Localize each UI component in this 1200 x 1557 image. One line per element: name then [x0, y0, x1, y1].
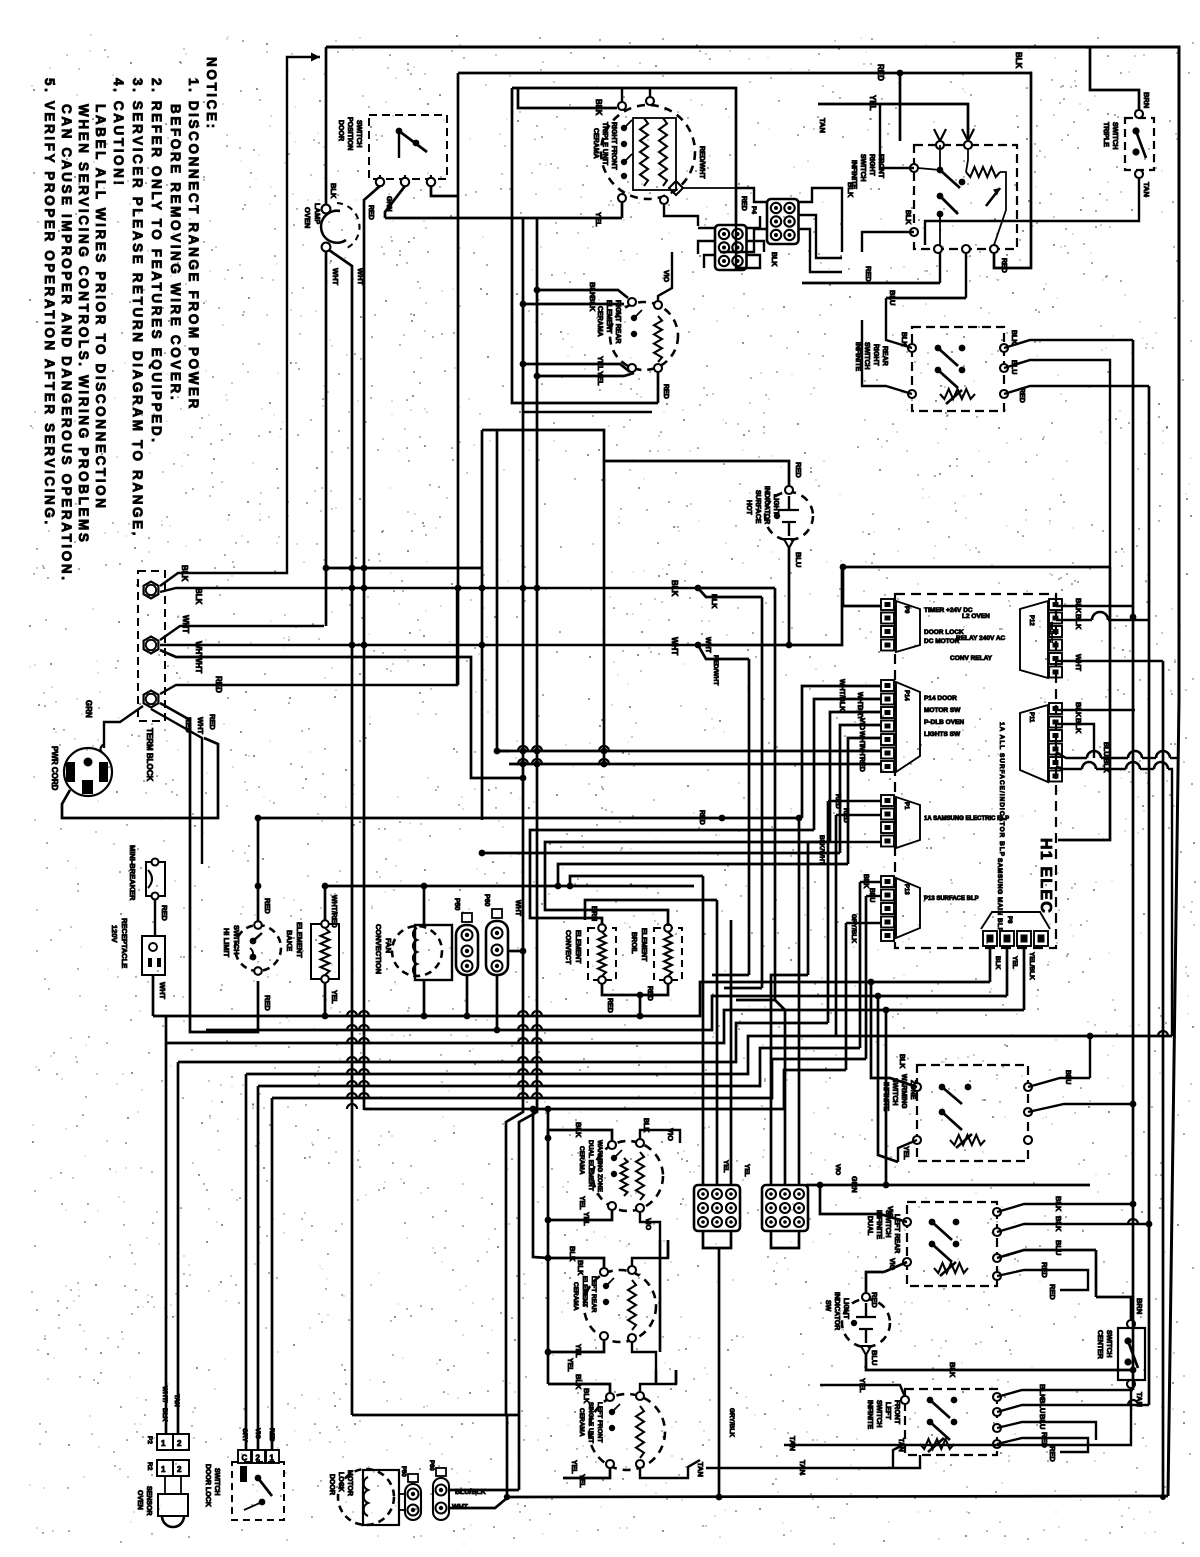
svg-text:CERAMA: CERAMA [578, 1408, 585, 1437]
svg-text:1: 1 [161, 1465, 166, 1474]
terminal TB1-RED [144, 691, 159, 708]
wire BLK left front top [548, 1384, 610, 1393]
svg-text:WHT: WHT [158, 982, 167, 999]
svg-text:P60: P60 [483, 894, 490, 907]
cascade row Y900 [585, 900, 717, 920]
enclosure rect right rear element [523, 296, 652, 412]
wire P14 pin6 WHT long bus [497, 750, 881, 753]
svg-text:4. CAUTION!: 4. CAUTION! [111, 78, 126, 188]
wire RED breaker to receptacle [154, 899, 156, 936]
svg-text:BLK: BLK [994, 956, 1001, 970]
dual infinite switch left rear dashed box [907, 1202, 997, 1286]
svg-text:WHT: WHT [670, 637, 679, 655]
svg-text:P13 SURFACE BLP: P13 SURFACE BLP [924, 896, 979, 902]
svg-text:BLK/WHT: BLK/WHT [818, 835, 825, 865]
wire BLK right rear top2 [523, 303, 624, 306]
trunk vertical X482 [481, 430, 484, 820]
wire sw light top [866, 1272, 884, 1293]
wire sw light bottom [866, 1355, 1133, 1370]
svg-text:SW: SW [824, 1300, 831, 1312]
svg-text:P1: P1 [903, 802, 909, 810]
enclosure rect right front element [512, 88, 658, 403]
vertical X523 lower continuation jog [506, 952, 523, 1415]
svg-text:BLK: BLK [161, 1408, 168, 1422]
svg-text:2. REFER ONLY TO FEATURES EQUI: 2. REFER ONLY TO FEATURES EQUIPPED. [149, 78, 164, 445]
wire P8 YEL down to warming switch [878, 996, 898, 1162]
connector C6 right front [715, 225, 747, 270]
infinite switch right front dashed box [914, 145, 1017, 249]
svg-text:SWITCH: SWITCH [355, 120, 362, 148]
svg-text:TAN: TAN [798, 1460, 807, 1475]
wires door lock switch up [245, 1074, 248, 1450]
triple switch dashed box [1125, 118, 1154, 170]
power cord PWR CORD [64, 748, 112, 796]
header P1 bottom left A [881, 795, 894, 806]
svg-text:BLK: BLK [1054, 1196, 1063, 1212]
element CERAMA ELEMENT RIGHT REAR dashed circle [610, 302, 678, 370]
svg-text:BRN: BRN [1135, 1298, 1144, 1314]
wire BRN to triple switch [1090, 47, 1139, 110]
wire from element bottom right [664, 204, 698, 226]
svg-text:CERAMA: CERAMA [578, 1146, 585, 1175]
wire RED door switch down to trunk [364, 186, 380, 568]
wire YEL from right front element [621, 202, 624, 218]
wires dual switch right BLK BLK [997, 1204, 1133, 1212]
wire door switch right leg [431, 186, 458, 196]
wire RED right rear down to enclosure bottom [657, 372, 660, 403]
svg-text:BLK: BLK [1010, 330, 1017, 344]
vertical chain left of bottom elements [547, 1109, 550, 1384]
inf sw RF coil [966, 167, 1000, 177]
wire bake top [324, 886, 327, 920]
svg-text:VIO: VIO [666, 1128, 675, 1141]
wire bottom WHT bus to border [507, 1496, 1168, 1497]
svg-text:DUAL: DUAL [866, 1216, 873, 1236]
svg-text:P13: P13 [903, 884, 909, 895]
svg-text:LAMP: LAMP [313, 203, 322, 224]
svg-text:2: 2 [177, 1439, 182, 1448]
wire BLK P11 pin2 [1056, 724, 1094, 758]
wire Y430 link [482, 430, 604, 461]
svg-text:CERAMA: CERAMA [572, 1282, 579, 1311]
svg-text:RED: RED [858, 757, 865, 772]
svg-text:RED: RED [794, 462, 803, 478]
svg-text:BLU: BLU [870, 1350, 879, 1365]
svg-text:1: 1 [270, 1454, 275, 1463]
wire WHT lamp down-left [325, 251, 328, 626]
svg-text:BLK: BLK [574, 1122, 583, 1138]
trunk vertical X1149 [1148, 386, 1151, 1220]
svg-text:BLK: BLK [1074, 614, 1083, 630]
vertical X537 lower continuation jog [519, 886, 537, 1415]
svg-text:SWITCH: SWITCH [1111, 122, 1118, 150]
svg-text:OVEN: OVEN [303, 207, 312, 228]
svg-text:5. VERIFY PROPER OPERATION AFT: 5. VERIFY PROPER OPERATION AFTER SERVICI… [42, 78, 57, 527]
connector C8 upper right [767, 199, 799, 244]
svg-text:VIO: VIO [888, 1258, 895, 1271]
wire TAN left front switch bottom [706, 1455, 920, 1468]
wire BLK Y588 lower branch [698, 588, 762, 597]
hop bumps on bus rows 751 764 [518, 746, 528, 751]
cascade row Y842 to broil element [545, 842, 830, 926]
svg-text:RED: RED [740, 196, 747, 211]
svg-text:GRY/BLK: GRY/BLK [728, 1408, 735, 1437]
bus Y751 left part [497, 750, 510, 753]
svg-text:TAN: TAN [818, 118, 827, 133]
wires C8 left side [736, 188, 768, 202]
svg-text:P50: P50 [400, 1466, 406, 1477]
trunk vertical X364 [363, 568, 366, 1110]
svg-text:2: 2 [256, 1454, 261, 1463]
svg-text:H1 ELEC: H1 ELEC [1037, 838, 1054, 914]
svg-text:CERAMA: CERAMA [592, 128, 599, 159]
bus Y568 short [326, 567, 482, 570]
wire surface light top loop [604, 461, 789, 767]
trunk vertical X497 [496, 430, 499, 751]
svg-text:TAN: TAN [173, 1394, 180, 1407]
wire left front top right [640, 1370, 676, 1392]
svg-text:WHT: WHT [704, 637, 711, 654]
wire motor to pills [399, 1493, 405, 1495]
svg-text:RELAY 240V AC: RELAY 240V AC [956, 635, 1006, 642]
svg-text:LEFT FRONT: LEFT FRONT [596, 1402, 603, 1442]
svg-text:DUAL ELEMENT: DUAL ELEMENT [587, 1140, 594, 1191]
svg-text:P9: P9 [903, 606, 909, 614]
svg-text:LIGHTS SW: LIGHTS SW [924, 731, 961, 738]
wires warming switch right [1028, 1078, 1090, 1087]
hop bumps on ladder rows at left trunks [347, 1011, 357, 1016]
wire P14 pin1 WHT/BLK [802, 686, 881, 818]
svg-text:WHT: WHT [514, 900, 521, 917]
svg-text:FAN: FAN [384, 938, 393, 953]
svg-text:P8: P8 [1006, 916, 1012, 924]
wires left front switch right [997, 1390, 1133, 1397]
wire right riser X1110 down [1058, 567, 1110, 840]
trunk vertical X537 [536, 218, 539, 886]
wire BLU/BLK P11 hop line Y758 [1056, 752, 1087, 758]
cascade row RED Y818 [258, 817, 802, 820]
wire left front switch left [893, 1444, 905, 1468]
svg-text:BLK: BLK [898, 1054, 905, 1068]
svg-text:GRY: GRY [241, 1428, 248, 1443]
svg-text:BLK: BLK [1054, 1216, 1063, 1232]
svg-text:YEL: YEL [902, 1146, 909, 1160]
svg-text:WHT/RED: WHT/RED [330, 895, 337, 928]
svg-text:SENSOR: SENSOR [145, 1486, 152, 1516]
svg-text:CONVECTION: CONVECTION [374, 924, 383, 974]
connector R2 [157, 1460, 173, 1476]
wire header P9 left [843, 567, 881, 606]
svg-text:P2: P2 [146, 1436, 153, 1444]
svg-text:TRIPLE: TRIPLE [1102, 122, 1109, 147]
wire WHT header P12 pin5 [1056, 660, 1163, 662]
svg-text:CONVECT: CONVECT [564, 930, 571, 965]
svg-text:RED: RED [208, 714, 217, 730]
svg-text:2: 2 [177, 1465, 182, 1474]
svg-text:BRN: BRN [590, 906, 597, 921]
svg-text:VIO: VIO [254, 1428, 261, 1439]
terminal block TB1 dashed outline [138, 571, 165, 721]
header P12 top right [1049, 599, 1062, 610]
wire BLK warming top [548, 1130, 612, 1141]
wire P14 pin2 WHT [814, 699, 881, 830]
wire WHT bus Y657 [160, 650, 523, 778]
H1 ELEC board dashed outline [895, 594, 1056, 948]
element CERAMA TRIPLE UNIT RIGHT FRONT dashed circle [601, 105, 695, 199]
svg-text:WHITE: WHITE [1046, 622, 1053, 644]
wire BRN center switch [1096, 1297, 1131, 1320]
svg-text:CONV RELAY: CONV RELAY [950, 655, 993, 662]
inf sw RF contacts [910, 164, 918, 172]
svg-text:INDICATOR: INDICATOR [833, 1292, 840, 1330]
wires C8 right side [798, 188, 842, 252]
svg-text:P14: P14 [903, 690, 909, 701]
wire warm switch left [871, 982, 917, 1087]
svg-text:BLK: BLK [948, 1362, 957, 1378]
cascade row Y830 to convect element [530, 830, 814, 926]
svg-text:P14 DOOR: P14 DOOR [924, 695, 957, 702]
svg-text:RED: RED [606, 998, 613, 1013]
svg-text:RIGHT: RIGHT [868, 154, 875, 177]
svg-text:BLK: BLK [582, 1388, 591, 1404]
element internals right front [618, 102, 626, 110]
wire P60 drop [496, 975, 499, 1030]
svg-text:RED: RED [834, 794, 841, 809]
svg-text:BLK: BLK [1074, 702, 1083, 718]
svg-text:SINGLE UNIT: SINGLE UNIT [587, 1402, 594, 1443]
svg-text:P11: P11 [1028, 712, 1034, 723]
svg-text:BLK: BLK [670, 580, 679, 597]
wire warming bottom right [640, 1212, 660, 1240]
svg-text:MINI-BREAKER: MINI-BREAKER [128, 845, 137, 901]
wire left rear top right [632, 1240, 668, 1266]
wire P14 pin7 RED long bus [509, 763, 881, 766]
svg-text:RED: RED [864, 266, 873, 282]
door lock motor [363, 1470, 399, 1525]
svg-text:BLK: BLK [1014, 52, 1023, 69]
svg-text:GRN: GRN [850, 1176, 859, 1193]
cascade row Y853 [482, 852, 840, 855]
wire TAN left front bottom right [640, 1460, 700, 1478]
wire RED bus Y685 [160, 588, 457, 694]
svg-text:BLK: BLK [862, 874, 869, 888]
svg-text:TAN: TAN [696, 1462, 705, 1477]
wire WHT right of P60 [508, 950, 523, 953]
wires P1 left [828, 800, 881, 802]
svg-text:BLK: BLK [1074, 718, 1083, 734]
trunk vertical X1133 [1132, 340, 1135, 1093]
wire RED/WHT branch of WHT bus [698, 645, 749, 659]
svg-text:BLK: BLK [900, 332, 907, 346]
svg-text:P4: P4 [750, 206, 757, 214]
svg-text:POSITION: POSITION [346, 117, 353, 150]
svg-text:OVEN: OVEN [136, 1490, 143, 1510]
svg-text:RECEPTACLE: RECEPTACLE [120, 918, 129, 968]
svg-text:YEL: YEL [858, 1378, 867, 1393]
svg-text:L2 OVEN: L2 OVEN [962, 613, 990, 620]
oven lamp [321, 211, 346, 243]
infinite switch left front dashed box [905, 1389, 997, 1455]
wire BLK P11 pin1 [1056, 709, 1135, 711]
infinite switch warming zone dashed box [917, 1065, 1028, 1161]
wire Y567 snake right [842, 566, 1110, 569]
cascade row Y864 [558, 864, 848, 886]
mini breaker box [146, 862, 165, 896]
svg-text:R2: R2 [146, 1462, 153, 1471]
svg-text:BLK: BLK [180, 565, 189, 582]
sw indicator light dashed circle [842, 1299, 890, 1347]
svg-text:BLK: BLK [594, 99, 603, 116]
svg-text:BLU: BLU [1054, 1240, 1063, 1255]
svg-text:RED: RED [160, 905, 169, 921]
wires P2 to sensor [164, 1476, 166, 1494]
svg-text:VIO: VIO [886, 1206, 893, 1219]
wire bake bottom [324, 983, 327, 1016]
svg-text:YEL: YEL [722, 1160, 729, 1173]
wire P14 pin5 WHT [848, 738, 881, 864]
wire BLK from terminal block up to border [160, 57, 320, 586]
svg-text:YEL: YEL [582, 1212, 589, 1226]
svg-text:C: C [242, 1454, 248, 1463]
wire top line Y73 RED [458, 73, 1031, 268]
wire element top left terminal [621, 88, 623, 102]
svg-text:BLK: BLK [194, 588, 203, 605]
wires P8 down [989, 946, 992, 982]
connector pill A [405, 1484, 421, 1520]
wire WHT below receptacle [152, 975, 155, 1016]
svg-text:YEL: YEL [578, 1474, 585, 1488]
trunk vertical X1163 [1162, 661, 1165, 1497]
svg-text:WHT/BLK: WHT/BLK [838, 679, 845, 711]
wire Y1036 row to BLU/BLK return [836, 1035, 1172, 1038]
svg-text:WHEN SERVICING CONTROLS. WIRIN: WHEN SERVICING CONTROLS. WIRING PROBLEMS [76, 104, 91, 545]
svg-text:RED: RED [367, 205, 374, 220]
convect element [588, 928, 616, 980]
svg-text:SAMSUNG MAIN BLP: SAMSUNG MAIN BLP [996, 858, 1003, 933]
svg-text:LIGHT: LIGHT [842, 1298, 849, 1320]
element CERAMA DUAL WARMING ZONE dashed circle [593, 1141, 663, 1211]
svg-text:P12: P12 [1028, 615, 1034, 626]
svg-text:BLU: BLU [1010, 360, 1017, 374]
infinite switch right rear dashed box [912, 327, 1004, 411]
svg-text:SURFACE: SURFACE [754, 490, 761, 524]
svg-text:ELEMENT: ELEMENT [574, 930, 581, 964]
diagram outer border [326, 47, 1179, 1496]
wire BLK border to lamp [325, 47, 328, 205]
wire GRN bus Y1185 [806, 1184, 1090, 1187]
svg-text:VIO: VIO [644, 1218, 651, 1231]
svg-text:RED/WHT: RED/WHT [698, 146, 705, 179]
svg-text:LOCK: LOCK [337, 1472, 344, 1492]
inf sw RR contacts [908, 344, 916, 352]
svg-text:RED: RED [662, 384, 669, 399]
wire P14 pin4 VIO [840, 725, 881, 853]
svg-text:RED: RED [1040, 1262, 1049, 1278]
svg-text:BEFORE REMOVING WIRE COVER.: BEFORE REMOVING WIRE COVER. [168, 104, 183, 402]
svg-text:YEL: YEL [594, 212, 603, 227]
svg-text:VIO: VIO [834, 1164, 841, 1175]
svg-text:ELEMENT: ELEMENT [295, 922, 304, 958]
wire WHT bus Y644 [160, 644, 698, 646]
svg-text:REAR: REAR [881, 346, 888, 366]
wire WHT Y645 continues to riser [698, 567, 842, 645]
wire WHT short to lamp [160, 626, 324, 640]
wires connector C6 right pins [746, 216, 760, 228]
terminal TB1-WHT [144, 637, 159, 654]
svg-text:MOTOR: MOTOR [346, 1470, 353, 1496]
svg-text:LEFT: LEFT [884, 1402, 891, 1420]
svg-text:RED: RED [842, 808, 849, 823]
svg-text:BLU: BLU [1064, 1070, 1071, 1084]
svg-text:TAN: TAN [1142, 182, 1151, 197]
svg-text:BLU: BLU [888, 290, 897, 305]
wire BLK header P12 pin2 hop [1056, 619, 1092, 621]
connector pill B [433, 1478, 449, 1520]
svg-text:YEL/BLK: YEL/BLK [1028, 952, 1035, 980]
svg-text:SWITCH: SWITCH [863, 342, 870, 370]
connector P50 left [456, 925, 478, 975]
wire VIO warming top right [640, 1130, 680, 1143]
wire RED below convect/broil [602, 984, 668, 995]
door switch contacts [396, 128, 403, 135]
wire fan top [423, 886, 426, 925]
broil element [654, 928, 682, 980]
wire BLK header P12 pin1 [1056, 605, 1133, 607]
wire hop line Y769 [1056, 766, 1082, 769]
svg-text:DOOR: DOOR [337, 120, 344, 141]
header P9 top left [881, 599, 894, 610]
wire BLK left rear top [548, 1258, 604, 1268]
wires below connectors [703, 1231, 731, 1248]
ladder wires staircase lower [153, 982, 990, 1016]
junction X1163 bottom [1160, 1494, 1166, 1500]
svg-text:SWITCH: SWITCH [213, 1468, 220, 1496]
svg-text:MOTOR SW: MOTOR SW [924, 707, 961, 714]
wires P13 left [860, 881, 881, 883]
header P13 bottom left B [881, 876, 894, 887]
bake element [311, 924, 339, 979]
svg-text:YEL: YEL [574, 1344, 581, 1358]
wire BLK bus Y588 [160, 588, 698, 592]
svg-text:YEL: YEL [578, 1196, 585, 1210]
connector birds on inf sw top terminals [934, 129, 940, 141]
svg-text:P60: P60 [428, 1460, 434, 1471]
wire RED bus 283 [802, 282, 940, 285]
svg-text:VIO: VIO [662, 270, 669, 283]
svg-text:TAN: TAN [1135, 1392, 1144, 1407]
wires inf sw RR left [886, 320, 912, 348]
connector C9 bottom B [762, 1185, 808, 1231]
svg-text:BLK: BLK [770, 252, 777, 266]
svg-text:BLU: BLU [1038, 1398, 1047, 1413]
svg-text:RED: RED [1000, 258, 1007, 273]
svg-text:RED: RED [1048, 1284, 1057, 1300]
svg-text:WARMING ZONE: WARMING ZONE [596, 1140, 603, 1193]
svg-text:SWITCH: SWITCH [875, 1400, 882, 1428]
wire left rear bottom right [632, 1342, 656, 1370]
wire vertical X900 from Y73 [899, 73, 902, 141]
svg-text:NOTICE:: NOTICE: [204, 57, 219, 131]
wire YEL left front bottom [563, 1468, 610, 1478]
svg-text:BRN: BRN [1142, 92, 1151, 108]
svg-text:RED: RED [214, 676, 223, 693]
wire P14 pin3 GRY [830, 712, 881, 842]
surface indicator light dashed circle [765, 492, 813, 540]
door lock switch dashed box [232, 1462, 284, 1520]
svg-text:BLK: BLK [904, 210, 911, 224]
wires dual switch left [820, 1185, 907, 1222]
svg-text:1A SAMSUNG ELECTRIC BLP: 1A SAMSUNG ELECTRIC BLP [924, 816, 1009, 822]
